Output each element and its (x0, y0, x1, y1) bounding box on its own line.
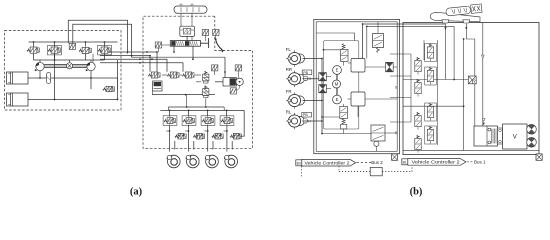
valve VB3 (b) top right solenoid valve (373, 22, 384, 53)
sensor S2 (a) pedal travel sensor (202, 29, 208, 35)
valve WB7 (b) wheel valve pair 4 lower (415, 135, 421, 152)
wire: header to relief branch (117, 78, 119, 89)
valve V4 (a) left box solenoid valve with bypass check loop (98, 45, 112, 55)
svg-text:FR: FR (286, 89, 292, 94)
wire: brake line bundle 3 (100, 58, 167, 60)
valve V1 (a) left box inlet solenoid valve (27, 47, 39, 53)
enclosure: pump housing (b) (324, 41, 359, 129)
wire: brake circuit links between units (390, 53, 411, 55)
controller B1 port (b right) (402, 159, 408, 165)
motor M1 (a) pump motor (66, 63, 72, 69)
wire: brake line bundle 1 (100, 51, 157, 53)
wire: sensor stubs (204, 35, 206, 41)
valve V14 (a) wheel inlet valve RL (201, 116, 215, 126)
wire: tank feed right with arrow (465, 24, 467, 28)
wire: FR wheel line (303, 100, 323, 102)
wire: stack link lower (322, 116, 340, 118)
wire: valve stubs to manifold (33, 42, 35, 47)
wire: vertical x454 (453, 26, 455, 79)
valve V17 (a) wheel outlet valve FR (193, 133, 204, 139)
check valve arrow into master cylinder (b) (482, 119, 485, 122)
bus: Bus 2 dashed link (357, 162, 371, 164)
wheel RL (b) (286, 109, 305, 129)
sensor S5 (a) pressure sensor (212, 65, 218, 71)
wire: internal wheel manifold vertical (321, 59, 323, 134)
bus: Bus 1 dashed link (467, 161, 473, 163)
valve WB1 (b) wheel valve pair 1 lower (415, 57, 421, 74)
svg-text:RR: RR (286, 67, 292, 72)
wire: pump feed vertical (224, 57, 226, 77)
wire: relief valve branch (54, 54, 56, 100)
bus: dotted gateway link (338, 166, 340, 171)
wire: lower manifold A (152, 91, 154, 95)
valve V6 (a) pedal feel simulator valve (180, 26, 195, 36)
gateway node box (370, 167, 382, 175)
wire: mid manifold (152, 94, 215, 96)
port B2 (b left box corner) (392, 154, 398, 160)
wire: net from pilot valves over the top to right box (lower) (73, 24, 132, 57)
reservoir tank (b) on top of ESP unit (430, 4, 482, 23)
wire: check X3 stub (393, 66, 397, 68)
wire: lower manifold B (168, 106, 224, 108)
shaft: motor to pump heads (b) (335, 75, 337, 81)
wire: sensor stubs right box (214, 71, 216, 75)
gear G2 (b) reduction gear lower (527, 137, 537, 147)
accumulator A2 (a) high pressure accumulator lower (7, 93, 29, 106)
enclosure: brake-by-wire unit (b) inner signal rail (316, 22, 397, 152)
valve VB1 (b) upper control valve stack (340, 44, 348, 66)
valve V8 (a) isolation valve 2 (167, 72, 179, 78)
svg-text:Vehicle Controller 2: Vehicle Controller 2 (412, 160, 460, 166)
valve V2 (a) left box solenoid valve with bypass check loop (48, 45, 62, 55)
svg-text:RL: RL (286, 109, 292, 114)
filter F1 (a) line filter (47, 72, 51, 83)
wheel FL (b) (286, 47, 305, 67)
valve V7 (a) isolation valve 1 (148, 72, 160, 78)
wheel cylinder FR (a) (186, 155, 200, 168)
svg-text:E: E (336, 97, 339, 102)
valve V19 (a) wheel outlet valve RR (230, 133, 241, 139)
parking brake PB actuator at RR wheel (302, 70, 312, 81)
sensor S7 (a) motor position sensor (230, 86, 239, 95)
valve V10 (a) switch valve upper (203, 71, 209, 83)
pump P3 (a) plunger pump with motor (223, 78, 243, 86)
svg-text:(a): (a) (130, 187, 143, 198)
sensor S4 (a) circuit pressure sensor (155, 42, 161, 48)
valve WB3 (b) wheel valve pair 2 lower (415, 79, 421, 96)
valve WB5 (b) wheel valve pair 3 lower (415, 112, 421, 129)
wire: chamber2 to rail (365, 98, 397, 100)
wire: pump suction line (215, 81, 223, 83)
wire: push rod to pedal (201, 42, 209, 44)
wheel cylinder RL (a) (205, 155, 219, 168)
wire: simulator to master cylinder (186, 36, 188, 40)
gear G1 (b) reduction gear upper (527, 124, 537, 134)
wire: FL wheel line (303, 58, 323, 60)
node: manifold junctions (33, 41, 35, 43)
wire: RL wheel line (303, 120, 323, 122)
wire: brake line bundle 4 (100, 62, 183, 64)
svg-text:(b): (b) (410, 187, 423, 198)
enclosure: ESP hydraulic unit (b) right box (403, 23, 539, 155)
wire: chamber2 to return line (357, 106, 359, 117)
svg-text:Bus 1: Bus 1 (474, 159, 486, 164)
svg-text:V: V (513, 135, 517, 141)
node: lower manifold junctions (169, 110, 171, 112)
reservoir (a) capsule tank (174, 4, 207, 41)
wire: lower distribution line (34, 59, 105, 61)
valve V13 (a) wheel inlet valve FR (182, 116, 196, 126)
accumulator A3 (a) low pressure accumulator (153, 81, 162, 91)
check unit X3 (b) (386, 62, 394, 71)
controller B3 port (b left) (296, 160, 302, 166)
svg-text:FL: FL (286, 47, 292, 52)
master cylinder MC (a) tandem master cylinder (170, 41, 200, 47)
wire: manifold B risers (167, 107, 169, 110)
parking brake PB actuator at RL wheel (302, 112, 312, 123)
valve WB4 (b) wheel valve pair 2 upper (425, 67, 437, 85)
svg-text:Vehicle Controller 2: Vehicle Controller 2 (305, 161, 350, 167)
valve V11 (a) switch valve lower (203, 86, 209, 98)
valve V18 (a) wheel outlet valve RL (212, 133, 223, 139)
check unit X2 (b) (319, 85, 327, 93)
wheel FR (b) (286, 89, 305, 109)
bus: stub below controller B3 (301, 166, 303, 176)
wire: RR wheel line (303, 78, 319, 80)
chamber CB1 (b) upper pressure chamber (351, 59, 365, 73)
booster V (b) electro-booster (503, 124, 528, 149)
master cylinder MCB (b) (474, 126, 498, 146)
chamber CB2 (b) lower pressure chamber (351, 92, 365, 106)
wire: tank feed left with arrow (445, 24, 447, 28)
wire: feeds to wheel inlet valves (169, 110, 171, 116)
wire: accumulator lower return line (28, 60, 118, 100)
sensor S6 (a) pressure sensor (235, 65, 241, 71)
wire: top rail upper (b) (363, 23, 446, 25)
controller: Vehicle Controller 2 (right) (408, 159, 466, 166)
wire: vertical x463.6 full height (463, 39, 465, 150)
svg-text:PB: PB (303, 71, 308, 75)
wire: inner bottom rail (b right) (403, 149, 539, 151)
valve V5 (a) pressure relief valve (103, 86, 115, 91)
node: return junctions (117, 99, 119, 101)
wire: feed stubs to isolation valves (149, 56, 151, 72)
enclosure: integrated brake unit (a) left dashed box (5, 31, 122, 111)
sensor S1 (a) pressure sensor pair (69, 43, 75, 49)
wire: sensor S4 link (162, 44, 171, 46)
sensor S3 (a) pedal force sensor (213, 29, 219, 35)
pump E2 (b) lower pump head (333, 95, 342, 104)
valve V12 (a) wheel inlet valve FL (163, 116, 177, 126)
pump P2 (a) piston pump right (86, 62, 96, 71)
valve VB4 (b) lower right solenoid valve (371, 125, 385, 151)
wire: outlet valve return header (240, 110, 244, 136)
enclosure: brake-by-wire unit (b) outer box (314, 19, 400, 153)
wire: left box top manifold (29, 41, 118, 43)
motor M (b) electric motor (333, 80, 341, 88)
wire: chamber risers (362, 24, 364, 59)
enclosure: (a) right dashed box (brake-by-wire actuator) (143, 16, 253, 148)
wire: top rail lower (b) (367, 25, 454, 27)
wire: master cylinder outputs down (173, 46, 175, 52)
wire: suction header (28, 77, 118, 79)
wire: check units to motor (326, 76, 331, 78)
svg-text:B3: B3 (297, 162, 301, 166)
accumulator A1 (a) high pressure accumulator upper (7, 72, 29, 84)
wire: right box suction vertical (445, 28, 447, 80)
wheel cylinder FL (a) (167, 155, 181, 168)
valve WB2 (b) wheel valve pair 1 upper (425, 44, 437, 62)
wire: pump risers (39, 71, 41, 78)
valve V15 (a) wheel inlet valve RR (220, 116, 234, 126)
port B4 (b right box corner) (536, 154, 542, 160)
svg-text:B1: B1 (403, 161, 407, 165)
wire: housing feed (316, 33, 354, 41)
pump E1 (b) upper pump head (333, 66, 342, 75)
valve V3 (a) left box inlet solenoid valve (79, 47, 91, 53)
svg-text:E: E (336, 68, 339, 73)
wire: wheel brake lines (169, 125, 171, 152)
pump PB1 (b) recirculation pump with motor (468, 76, 476, 84)
wire: manifold drop links (162, 74, 167, 76)
shaft: pump drive shaft (36, 65, 95, 68)
wire: stack link upper (324, 49, 341, 51)
wire: brake line bundle 2 (100, 55, 150, 57)
svg-text:Bus 2: Bus 2 (371, 160, 383, 165)
controller: Vehicle Controller 2 (left) (302, 159, 356, 166)
wire: net from pilot valves over the top to right box (upper) (68, 20, 127, 54)
wire: right box rail mid1 (403, 79, 468, 81)
valve WB8 (b) wheel valve pair 4 upper (425, 126, 437, 144)
wire: valve column verticals (410, 54, 412, 122)
svg-text:M: M (335, 82, 339, 87)
wire: return line to VB4 (322, 133, 371, 135)
svg-text:PB: PB (303, 113, 308, 117)
wire: master cylinder feed with check valve (482, 23, 484, 127)
wire: pump suction stubs (39, 60, 41, 62)
pump P1 (a) piston pump left (35, 62, 44, 71)
check unit X1 (b) (319, 73, 327, 81)
valve V16 (a) wheel outlet valve FL (175, 133, 186, 139)
brake pedal (a) (209, 38, 224, 52)
wheel RR (b) (286, 67, 305, 87)
wire: right box rail mid2 (403, 105, 464, 107)
valve V9 (a) isolation valve 3 (182, 72, 194, 78)
wire: right box vertical to master cylinder (466, 24, 475, 126)
wire: bundle left riser (92, 54, 94, 63)
wheel cylinder RR (a) (224, 155, 238, 168)
valve WB6 (b) wheel valve pair 3 upper (425, 103, 437, 121)
coupler (b) between master cylinder and booster (498, 128, 503, 144)
wire: chamber links (348, 62, 351, 64)
node: bundle junctions (127, 51, 129, 53)
valve VB2 (b) lower control valve stack (340, 104, 348, 129)
